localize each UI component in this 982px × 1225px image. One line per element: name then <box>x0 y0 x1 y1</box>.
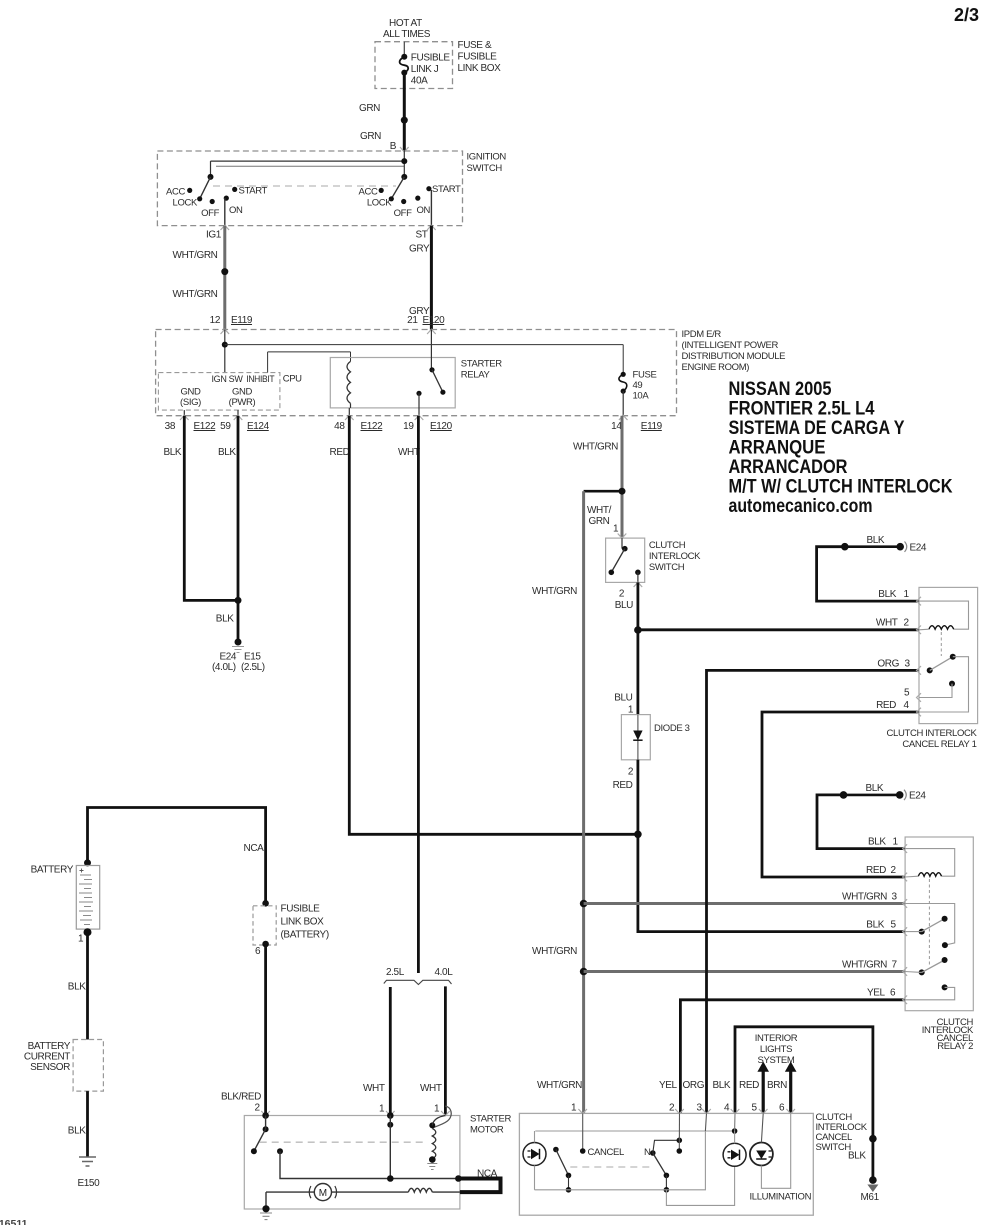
svg-text:NCA: NCA <box>244 843 265 854</box>
ground E150 <box>78 1157 101 1189</box>
svg-text:RELAY: RELAY <box>461 370 491 381</box>
svg-text:5: 5 <box>891 920 897 931</box>
wire GND SIG to pin 38 <box>183 410 185 416</box>
svg-text:E15: E15 <box>244 652 261 663</box>
svg-text:5: 5 <box>904 688 910 699</box>
wire BLK from pin 59 <box>216 416 238 642</box>
node motor feed junction <box>387 1175 394 1182</box>
svg-text:M61: M61 <box>861 1192 880 1203</box>
ground E24 E15 <box>212 639 265 674</box>
svg-text:016511: 016511 <box>0 1218 28 1225</box>
wire WHT/GRN to relay2 pin7 <box>584 960 906 972</box>
mechanical link dashed cancel switch <box>570 1166 653 1168</box>
svg-text:1: 1 <box>78 934 84 945</box>
svg-text:2: 2 <box>904 618 910 629</box>
wire hot feed into fuse box <box>403 42 405 56</box>
wire N contact to pin4 LED branch <box>666 1167 734 1206</box>
svg-text:FUSIBLE: FUSIBLE <box>281 904 321 915</box>
wire ORG relay1 pin3 to cancel switch <box>707 659 920 1114</box>
wire RED from pin 48 <box>330 416 639 835</box>
svg-text:BLU: BLU <box>614 693 632 704</box>
ignition switch box <box>157 151 506 226</box>
fusible link J 40A <box>400 53 451 87</box>
wire IGN SW input inside IPDM <box>224 330 226 373</box>
svg-text:RELAY 2: RELAY 2 <box>937 1041 973 1052</box>
svg-text:GRY: GRY <box>409 244 430 255</box>
svg-text:E124: E124 <box>247 421 270 432</box>
svg-text:WHT: WHT <box>876 618 898 629</box>
wire ST inside switch <box>430 190 432 226</box>
svg-text:4.0L: 4.0L <box>435 967 454 978</box>
svg-text:ACC: ACC <box>358 187 377 198</box>
svg-text:STARTER: STARTER <box>470 1114 511 1125</box>
node WHT/GRN splice <box>221 268 228 275</box>
pin 5 relay1 label <box>904 688 910 699</box>
fuse 49 10A <box>619 370 657 402</box>
wire pin1 to cancel contact <box>582 1113 584 1151</box>
svg-text:(4.0L): (4.0L) <box>212 662 236 673</box>
svg-text:BRN: BRN <box>767 1080 787 1091</box>
svg-text:BLK: BLK <box>68 982 86 993</box>
svg-text:BATTERY: BATTERY <box>28 1041 71 1052</box>
node pin4 internal junction <box>732 1113 738 1133</box>
starter motor armature circuit <box>332 1188 460 1192</box>
fusible link box battery <box>253 900 329 957</box>
illumination lamp <box>750 1113 812 1202</box>
wire feed to fuse 49 <box>225 345 623 375</box>
svg-text:LIGHTS: LIGHTS <box>760 1044 792 1055</box>
svg-text:CANCEL RELAY 1: CANCEL RELAY 1 <box>902 739 976 750</box>
clutch interlock cancel relay 2 box <box>905 837 974 1052</box>
ignition switch pole IG1 (left gang) <box>166 177 268 219</box>
svg-text:SWITCH: SWITCH <box>649 562 685 573</box>
pin 19 E120 <box>403 421 452 432</box>
wire RED diode to splice <box>613 760 638 835</box>
opto LED left <box>523 1131 546 1190</box>
svg-text:WHT/GRN: WHT/GRN <box>537 1080 582 1091</box>
svg-text:12: 12 <box>210 315 221 326</box>
svg-text:1: 1 <box>628 705 634 716</box>
wire WHT BLU splice to relay1 pin2 <box>638 618 919 630</box>
svg-text:RED: RED <box>739 1080 759 1091</box>
pin 59 E124 <box>220 421 269 432</box>
svg-text:BLK: BLK <box>867 535 885 546</box>
svg-text:BLK: BLK <box>68 1126 86 1137</box>
starter motor box <box>244 1114 511 1210</box>
node feed splice left <box>208 158 408 180</box>
opto LED pin4 <box>723 1131 746 1166</box>
wire BLK battery to sensor <box>68 932 88 1039</box>
wire BLK cancel switch pin4 to M61 <box>735 1027 873 1139</box>
svg-text:1: 1 <box>904 589 910 600</box>
NCA loop starter motor <box>455 1169 500 1193</box>
node IGN SW splice to fuse feed <box>222 342 228 348</box>
svg-text:E24: E24 <box>220 652 237 663</box>
pin 1 hook 4.0L <box>433 1106 451 1128</box>
interior lights system <box>755 1033 798 1066</box>
wire fuse 49 to pin 14 <box>622 391 624 416</box>
starter relay switch <box>416 367 445 396</box>
svg-text:BLU: BLU <box>615 600 633 611</box>
engine variant bracket 2.5L 4.0L <box>384 967 453 985</box>
svg-text:OFF: OFF <box>201 208 219 219</box>
svg-text:RED: RED <box>330 447 350 458</box>
sheet number bottom left <box>0 1218 28 1225</box>
svg-text:RED: RED <box>866 865 886 876</box>
svg-text:IG1: IG1 <box>206 230 222 241</box>
wire BLK E24 to relay1 pin1 <box>817 547 919 601</box>
svg-text:M: M <box>319 1188 327 1199</box>
clutch interlock cancel switch box <box>519 1112 867 1215</box>
connector marks relay1 pins <box>917 597 922 717</box>
svg-text:YEL: YEL <box>659 1080 678 1091</box>
battery current sensor <box>24 1040 103 1092</box>
svg-text:IGN SW: IGN SW <box>212 374 243 385</box>
svg-text:OFF: OFF <box>394 208 412 219</box>
svg-text:1: 1 <box>379 1104 385 1115</box>
svg-text:GND: GND <box>180 387 201 398</box>
svg-text:(SIG): (SIG) <box>180 397 201 408</box>
svg-text:6: 6 <box>779 1103 785 1114</box>
wire GND PWR to pin 59 <box>237 410 239 416</box>
svg-text:STARTER: STARTER <box>461 359 502 370</box>
motor M <box>309 1184 336 1201</box>
svg-text:BLK/RED: BLK/RED <box>221 1092 261 1103</box>
wire motor to ground <box>266 1192 314 1209</box>
connector mark ignition switch top <box>400 147 409 152</box>
svg-text:WHT: WHT <box>420 1083 442 1094</box>
clutch interlock switch box <box>606 538 702 582</box>
svg-text:21: 21 <box>407 315 418 326</box>
svg-text:2: 2 <box>628 767 634 778</box>
svg-text:WHT/: WHT/ <box>587 505 612 516</box>
pin 48 E122 <box>334 421 383 432</box>
pin 14 E119 <box>611 421 662 432</box>
svg-text:GRN: GRN <box>360 131 381 142</box>
svg-text:3: 3 <box>905 659 911 670</box>
svg-text:FUSE &: FUSE & <box>458 40 492 51</box>
svg-text:1: 1 <box>434 1104 440 1115</box>
IPDM E/R box <box>156 329 786 416</box>
svg-text:BLK: BLK <box>218 447 236 458</box>
wire relay coil to pin 48 <box>349 403 350 415</box>
svg-text:E120: E120 <box>430 421 453 432</box>
svg-text:START: START <box>432 184 461 195</box>
svg-text:WHT/GRN: WHT/GRN <box>842 892 887 903</box>
battery <box>31 859 100 944</box>
svg-text:E119: E119 <box>231 315 253 326</box>
wire ST into relay <box>430 330 432 370</box>
node WHT/GRN splice to relay2 pin7 <box>580 968 588 976</box>
svg-text:ON: ON <box>229 205 243 216</box>
node HOT AT ALL TIMES <box>383 18 431 40</box>
connector marks ignition switch bottom <box>221 225 436 230</box>
svg-text:(INTELLIGENT POWER: (INTELLIGENT POWER <box>682 340 779 351</box>
svg-text:DIODE 3: DIODE 3 <box>654 723 690 734</box>
node BLU splice <box>634 626 642 634</box>
svg-text:ILLUMINATION: ILLUMINATION <box>750 1192 812 1203</box>
svg-text:6: 6 <box>890 988 896 999</box>
cancel switch internal bus bottom <box>535 1113 707 1189</box>
svg-text:LOCK: LOCK <box>173 198 198 209</box>
page number <box>954 5 979 25</box>
svg-text:3: 3 <box>892 892 898 903</box>
wire BLK/RED to starter motor <box>221 945 266 1116</box>
svg-text:38: 38 <box>165 421 176 432</box>
starter solenoid switch <box>251 1112 283 1154</box>
svg-text:10A: 10A <box>633 391 650 402</box>
svg-text:CLUTCH: CLUTCH <box>649 540 686 551</box>
mechanical link dashed <box>213 185 396 187</box>
wire ignition switch internal feed <box>211 151 405 177</box>
svg-text:HOT AT: HOT AT <box>389 18 422 29</box>
svg-text:RED: RED <box>876 700 896 711</box>
svg-text:automecanico.com: automecanico.com <box>729 495 873 517</box>
clutch interlock switch contacts <box>609 538 641 582</box>
wire IG1 inside switch <box>224 198 226 226</box>
arrow BRN to interior lights <box>785 1062 797 1114</box>
svg-text:ENGINE ROOM): ENGINE ROOM) <box>682 362 750 373</box>
svg-text:WHT/GRN: WHT/GRN <box>532 586 577 597</box>
svg-text:2: 2 <box>891 865 897 876</box>
ground E24 upper <box>841 535 927 554</box>
svg-text:CPU: CPU <box>283 374 302 385</box>
svg-text:FUSE: FUSE <box>633 370 657 381</box>
svg-text:CANCEL: CANCEL <box>588 1147 625 1158</box>
wire BLK E24 to relay2 pin1 <box>817 795 905 849</box>
svg-text:BLK: BLK <box>164 447 182 458</box>
starter relay coil <box>347 361 351 403</box>
svg-text:INTERLOCK: INTERLOCK <box>649 551 701 562</box>
clutch interlock cancel relay 1 box <box>887 587 978 750</box>
svg-text:4: 4 <box>724 1103 730 1114</box>
svg-text:ON: ON <box>417 205 431 216</box>
diode 3 <box>621 715 689 760</box>
svg-text:1: 1 <box>893 837 899 848</box>
starter solenoid coil 4.0L <box>427 1116 445 1170</box>
wire WHT/GRN to relay2 pin3 <box>584 892 906 904</box>
svg-text:WHT/GRN: WHT/GRN <box>532 946 577 957</box>
svg-text:2/3: 2/3 <box>954 5 979 25</box>
cancel switch internal bus top <box>535 1130 734 1132</box>
svg-text:1: 1 <box>571 1103 577 1114</box>
pin 21 E120 <box>407 315 445 326</box>
svg-text:WHT: WHT <box>363 1083 385 1094</box>
wire WHT/GRN from pin 14 <box>573 416 622 538</box>
svg-text:BLK: BLK <box>216 614 234 625</box>
svg-text:7: 7 <box>892 960 898 971</box>
svg-text:CLUTCH INTERLOCK: CLUTCH INTERLOCK <box>887 728 978 739</box>
wire BLK from pin 38 <box>164 416 239 601</box>
svg-text:LINK BOX: LINK BOX <box>458 63 502 74</box>
svg-text:48: 48 <box>334 421 345 432</box>
svg-text:LINK BOX: LINK BOX <box>281 917 325 928</box>
connector marks starter motor pins <box>261 1111 394 1116</box>
wire WHT/GRN branch to left riser <box>532 491 622 1113</box>
svg-text:LINK J: LINK J <box>411 64 439 75</box>
svg-text:WHT/GRN: WHT/GRN <box>573 442 618 453</box>
svg-text:E24: E24 <box>910 543 927 554</box>
node BLK splice <box>235 597 242 604</box>
wire GRN from fusible link to ignition switch <box>359 73 404 152</box>
svg-text:IGNITION: IGNITION <box>467 152 507 163</box>
ground E24 lower <box>840 783 927 802</box>
svg-text:WHT: WHT <box>398 447 420 458</box>
svg-text:BLK: BLK <box>868 837 886 848</box>
starter relay box <box>330 358 502 408</box>
wire solenoid contact to motor feed <box>280 1151 458 1178</box>
svg-text:WHT/GRN: WHT/GRN <box>173 250 218 261</box>
svg-text:59: 59 <box>220 421 231 432</box>
svg-text:GRN: GRN <box>359 103 380 114</box>
svg-text:ORG: ORG <box>877 659 899 670</box>
svg-text:E119: E119 <box>641 421 663 432</box>
svg-text:BLK: BLK <box>866 920 884 931</box>
svg-text:2: 2 <box>619 589 625 600</box>
svg-text:SWITCH: SWITCH <box>467 163 503 174</box>
svg-text:BLK: BLK <box>866 783 884 794</box>
ground starter motor case <box>260 1205 272 1219</box>
svg-text:GRN: GRN <box>588 516 609 527</box>
wire WHT 4.0L branch <box>420 986 445 1115</box>
connector marks IPDM bottom pins <box>180 415 628 420</box>
pin number labels cancel switch <box>571 1103 785 1114</box>
svg-text:ALL TIMES: ALL TIMES <box>383 29 431 40</box>
svg-text:BLK: BLK <box>848 1151 866 1162</box>
svg-text:IPDM E/R: IPDM E/R <box>682 329 722 340</box>
wire IG1 WHT/GRN to IPDM <box>173 226 225 330</box>
node RED splice <box>634 831 642 839</box>
wire relay contact to pin 19 <box>418 393 420 415</box>
svg-text:START: START <box>239 186 268 197</box>
svg-text:2.5L: 2.5L <box>386 967 405 978</box>
svg-text:BLK: BLK <box>878 589 896 600</box>
svg-text:RED: RED <box>613 780 633 791</box>
N switch <box>644 1113 682 1192</box>
svg-text:INHIBIT: INHIBIT <box>246 374 274 385</box>
pin 12 E119 <box>210 315 253 326</box>
svg-text:GND: GND <box>232 387 253 398</box>
wire splice to relay2 pin5 <box>638 834 905 931</box>
cancel switch contact <box>553 1147 624 1193</box>
ground M61 <box>848 1135 880 1203</box>
svg-text:INTERIOR: INTERIOR <box>755 1033 798 1044</box>
svg-text:N: N <box>644 1147 651 1158</box>
ignition switch pole ST (right gang) <box>358 177 461 219</box>
wire WHT from pin 19 <box>398 416 420 973</box>
svg-text:E24: E24 <box>909 791 926 802</box>
svg-text:6: 6 <box>255 946 261 957</box>
wire WHT 2.5L branch <box>363 987 390 1116</box>
wire YEL relay2 pin6 to cancel switch <box>680 988 905 1114</box>
svg-text:DISTRIBUTION MODULE: DISTRIBUTION MODULE <box>682 351 786 362</box>
svg-text:4: 4 <box>904 700 910 711</box>
svg-text:LOCK: LOCK <box>367 198 392 209</box>
wire BLK sensor to ground <box>68 1091 88 1157</box>
connector marks cancel switch pins <box>578 1109 795 1114</box>
wire RED relay1 pin4 to relay2 pin2 <box>762 700 919 877</box>
svg-text:ORG: ORG <box>683 1080 705 1091</box>
relay 1 internals <box>919 601 969 712</box>
svg-text:YEL: YEL <box>867 988 886 999</box>
node WHT/GRN splice to relay2 pin3 <box>580 900 588 908</box>
connector marks relay2 pins <box>903 844 908 1004</box>
svg-text:2: 2 <box>669 1103 675 1114</box>
wire WHT pin1 into box <box>387 1112 394 1178</box>
CPU box <box>158 373 302 411</box>
battery feed wire top <box>88 808 266 906</box>
svg-text:(BATTERY): (BATTERY) <box>281 930 329 941</box>
wire ST GRY to IPDM <box>409 226 431 330</box>
wire INHIBIT to starter relay coil <box>268 352 351 373</box>
svg-text:40A: 40A <box>411 76 428 87</box>
svg-text:FUSIBLE: FUSIBLE <box>411 53 451 64</box>
arrow RED to interior lights <box>757 1062 769 1114</box>
mechanical link dashed starter <box>260 1141 425 1143</box>
svg-text:2: 2 <box>255 1103 261 1114</box>
svg-text:(PWR): (PWR) <box>229 397 256 408</box>
connector mark clutch interlock switch top <box>618 534 627 539</box>
svg-text:CURRENT: CURRENT <box>24 1052 70 1063</box>
svg-text:BATTERY: BATTERY <box>31 865 74 876</box>
svg-text:FUSIBLE: FUSIBLE <box>458 52 498 63</box>
svg-text:19: 19 <box>403 421 414 432</box>
connector mark clutch interlock switch bottom <box>634 582 643 587</box>
svg-text:E122: E122 <box>361 421 384 432</box>
svg-text:E150: E150 <box>78 1178 101 1189</box>
svg-text:WHT/GRN: WHT/GRN <box>842 960 887 971</box>
title text block <box>729 378 953 517</box>
node WHT/GRN splice pin14 <box>619 488 626 495</box>
svg-text:ST: ST <box>416 230 428 241</box>
svg-text:(2.5L): (2.5L) <box>241 662 265 673</box>
node GRN splice <box>401 117 408 124</box>
wire BLU switch to splice <box>615 582 638 630</box>
pin 38 E122 <box>165 421 216 432</box>
svg-text:SENSOR: SENSOR <box>30 1062 70 1073</box>
connector marks IPDM top <box>221 329 436 334</box>
relay 2 internals <box>905 849 955 1000</box>
svg-text:1: 1 <box>613 524 619 535</box>
svg-text:WHT/GRN: WHT/GRN <box>173 289 218 300</box>
svg-text:E120: E120 <box>423 315 446 326</box>
fuse and fusible link box <box>375 40 501 89</box>
svg-text:49: 49 <box>633 380 643 391</box>
svg-text:BLK: BLK <box>713 1080 731 1091</box>
svg-text:5: 5 <box>752 1103 758 1114</box>
svg-text:SWITCH: SWITCH <box>816 1142 852 1153</box>
svg-text:MOTOR: MOTOR <box>470 1125 504 1136</box>
svg-text:3: 3 <box>697 1103 703 1114</box>
wire color labels cancel switch <box>537 1080 787 1091</box>
svg-text:ACC: ACC <box>166 187 185 198</box>
wire BLU splice to diode <box>614 630 638 716</box>
svg-text:E122: E122 <box>194 421 217 432</box>
